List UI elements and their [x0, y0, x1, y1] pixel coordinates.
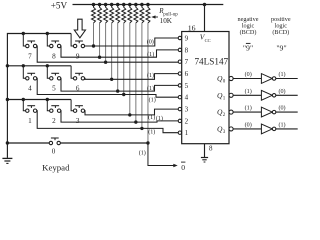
resistor R6 10K pull-up — [122, 3, 126, 23]
wire pin 8 to ground — [204, 144, 206, 158]
svg-text:8: 8 — [52, 52, 56, 60]
wire row bus 4-5-6 — [7, 65, 71, 67]
label inverted value (0) — [278, 88, 285, 95]
pin Q0 output bubble — [229, 76, 233, 80]
label pin 8 — [209, 145, 213, 153]
svg-text:4: 4 — [28, 85, 32, 93]
svg-text:2: 2 — [52, 117, 56, 125]
label Keypad — [42, 163, 70, 173]
inverter gate row 1 — [261, 90, 275, 100]
wire column from R6 down — [122, 23, 125, 96]
label net 0-bar — [181, 162, 185, 172]
pushbutton key 7 — [26, 41, 37, 60]
resistor R1 10K pull-up — [92, 3, 96, 23]
svg-text:(0): (0) — [278, 88, 285, 95]
wire column from R3 down — [104, 23, 107, 64]
svg-text:74LS147: 74LS147 — [194, 56, 228, 66]
svg-text:3: 3 — [185, 106, 189, 114]
label value 9-bar negative — [243, 43, 253, 52]
svg-text:CC: CC — [205, 38, 211, 43]
wire key 8 to pin 8 — [61, 46, 178, 57]
label pin number 1 — [185, 129, 189, 137]
svg-text:(1): (1) — [278, 122, 285, 129]
wire inverter row 0 output — [276, 78, 298, 80]
label input pin 2 state (1) — [148, 114, 155, 121]
pin 1 input bubble — [178, 131, 181, 134]
wire key 4 to pin 4 — [37, 78, 178, 97]
svg-text:8: 8 — [185, 46, 189, 54]
wire bus corner to key 9 — [71, 34, 73, 47]
svg-text:(1): (1) — [148, 114, 155, 121]
wire stub to key 2 — [46, 98, 50, 111]
inverter gate row 3 — [261, 124, 275, 134]
pushbutton key 2 — [50, 106, 61, 125]
svg-text:1: 1 — [185, 129, 189, 137]
wire Q3 to inverter — [233, 128, 262, 130]
svg-text:(1): (1) — [139, 150, 146, 157]
resistor R3 10K pull-up — [104, 3, 108, 23]
label Q2 value (1) — [245, 105, 252, 112]
svg-text:(1): (1) — [278, 71, 285, 78]
wire row bus 1-2-3 — [7, 99, 71, 101]
svg-text:(BCD): (BCD) — [240, 29, 257, 36]
label pin number 6 — [185, 70, 189, 78]
label value 9 positive — [276, 43, 286, 52]
svg-text:"9": "9" — [276, 43, 286, 52]
wire column from R9 down — [140, 23, 143, 130]
svg-text:2: 2 — [185, 117, 189, 125]
label inverted value (1) — [278, 122, 285, 129]
label pin number 9 — [185, 34, 189, 42]
wire bus corner to key 3 — [71, 100, 73, 111]
wire inverter row 3 output — [276, 128, 298, 130]
node +5V supply — [51, 1, 68, 11]
label pin number 7 — [185, 58, 189, 66]
label input pin 4 state (1) — [149, 96, 156, 103]
svg-text:(1): (1) — [149, 96, 156, 103]
label R pull-up = 10K with arrow — [151, 7, 178, 25]
svg-text:3: 3 — [76, 117, 80, 125]
svg-text:(BCD): (BCD) — [272, 29, 289, 36]
label input pin 9 state (0) — [147, 38, 154, 45]
wire bus corner to key 6 — [71, 66, 73, 79]
pushbutton key 5 — [50, 73, 61, 92]
label Q2 — [217, 108, 226, 119]
label pin number 8 — [185, 46, 189, 54]
junction bus to row 0 — [6, 141, 9, 144]
pin 3 input bubble — [178, 107, 181, 110]
svg-text:(1): (1) — [147, 72, 154, 79]
wire column from R2 down — [98, 23, 101, 59]
wire Q2 to inverter — [233, 111, 262, 113]
label Q0 — [217, 74, 226, 85]
svg-text:7: 7 — [185, 58, 189, 66]
wire inverter row 1 output — [276, 94, 298, 96]
wire column from R8 down — [134, 23, 137, 124]
svg-text:(0): (0) — [278, 105, 285, 112]
pin Q2 output bubble — [229, 110, 233, 114]
svg-text:5: 5 — [52, 85, 56, 93]
resistor R5 10K pull-up — [116, 3, 120, 23]
pushbutton key 0 — [49, 138, 60, 156]
label Q1 — [217, 91, 226, 102]
pushbutton key 9 — [73, 41, 84, 60]
wire stub to key 4 — [22, 64, 26, 78]
pin 7 input bubble — [178, 60, 181, 63]
svg-text:6: 6 — [185, 70, 189, 78]
svg-text:(1): (1) — [245, 105, 252, 112]
svg-text:0: 0 — [52, 148, 56, 156]
wire key 5 to pin 5 — [61, 78, 178, 91]
pin 2 input bubble — [178, 119, 181, 122]
label pin number 3 — [185, 106, 189, 114]
pin 9 input bubble — [178, 36, 181, 39]
wire Q0 to inverter — [233, 78, 262, 80]
junction bus to row 1-2-3 — [6, 98, 9, 101]
svg-text:(1): (1) — [156, 115, 163, 122]
label input pin 8 state (1) — [147, 51, 154, 58]
wire stub to key 5 — [46, 64, 50, 78]
label pin number 2 — [185, 117, 189, 125]
label inverted value (0) — [278, 105, 285, 112]
resistor R10 10K pull-up — [146, 3, 150, 23]
wire Q1 to inverter — [233, 94, 262, 96]
wire column from R10 down — [146, 23, 149, 145]
wire column from R5 down — [116, 23, 119, 93]
label pin 16 — [188, 23, 196, 32]
label input pin 1 state (1) — [148, 128, 155, 135]
wire column from R7 down — [128, 23, 131, 117]
label pin number 5 — [185, 82, 189, 90]
pushbutton key 8 — [50, 41, 61, 60]
svg-text:(1): (1) — [147, 85, 154, 92]
wire +5V rail — [73, 4, 224, 6]
wire key 3 to pin 3 — [85, 109, 179, 115]
label negative logic (BCD) — [238, 16, 259, 36]
svg-text:8: 8 — [209, 145, 213, 153]
label Q3 value (0) — [245, 122, 252, 129]
wire column from R4 down — [110, 23, 113, 81]
label positive logic (BCD) — [271, 16, 291, 36]
svg-text:16: 16 — [188, 23, 196, 32]
label Q3 — [217, 124, 226, 135]
pushbutton key 6 — [73, 73, 84, 92]
junction bus to row 4-5-6 — [6, 64, 9, 67]
pin 8 input bubble — [178, 48, 181, 51]
resistor R2 10K pull-up — [98, 3, 102, 23]
pin 5 input bubble — [178, 84, 181, 87]
pushbutton key 4 — [26, 73, 37, 92]
inverter gate row 2 — [261, 107, 275, 117]
label input pin 5 state (1) — [147, 85, 154, 92]
label Q1 value (1) — [245, 88, 252, 95]
svg-text:0: 0 — [181, 163, 185, 172]
pin Q1 output bubble — [229, 93, 233, 97]
label input pin 6 state (1) — [147, 72, 154, 79]
wire column from R1 down — [92, 23, 95, 48]
inverter gate row 0 — [261, 74, 275, 84]
wire key 1 to pin 1 — [37, 111, 178, 133]
wire key 9 to pin 9 — [85, 38, 179, 46]
wire inverter row 2 output — [276, 111, 298, 113]
label input pin 3 state (1) — [156, 115, 163, 122]
svg-text:(1): (1) — [245, 88, 252, 95]
svg-text:9: 9 — [76, 52, 80, 60]
wire stub to key 1 — [22, 98, 26, 111]
IC U1 74LS147 body — [182, 32, 229, 144]
svg-text:"9": "9" — [243, 43, 253, 52]
svg-text:5: 5 — [185, 82, 189, 90]
label row0 state (1) — [139, 150, 146, 157]
label Q0 value (0) — [245, 71, 252, 78]
svg-text:Keypad: Keypad — [42, 163, 70, 173]
label pin number 4 — [185, 94, 189, 102]
wire stub to key 8 — [46, 32, 50, 46]
wire row 0 — [7, 142, 148, 144]
svg-text:1: 1 — [28, 117, 32, 125]
resistor R4 10K pull-up — [110, 3, 114, 23]
svg-text:+5V: +5V — [51, 1, 68, 11]
pin 4 input bubble — [178, 96, 181, 99]
svg-text:(0): (0) — [245, 122, 252, 129]
svg-text:(0): (0) — [147, 38, 154, 45]
svg-text:(1): (1) — [148, 128, 155, 135]
pushbutton key 3 — [73, 106, 84, 125]
pin Q3 output bubble — [229, 127, 233, 131]
svg-text:4: 4 — [185, 94, 189, 102]
label inverted value (1) — [278, 71, 285, 78]
wire 0-line to indicator arrow — [148, 143, 178, 167]
wire Vcc rail to pin 16 — [203, 3, 207, 32]
arrow key-9 press indicator — [74, 19, 85, 38]
wire key 6 to pin 6 — [85, 74, 179, 80]
resistor R9 10K pull-up — [140, 3, 144, 23]
resistor R8 10K pull-up — [134, 3, 138, 23]
svg-text:10K: 10K — [160, 17, 173, 25]
ground IC — [201, 158, 208, 163]
resistor R7 10K pull-up — [128, 3, 132, 23]
pin 6 input bubble — [178, 72, 181, 75]
pushbutton key 1 — [26, 106, 37, 125]
wire keypad common bus — [7, 34, 71, 158]
ground keypad bus — [2, 158, 12, 163]
wire key 7 to pin 7 — [37, 46, 178, 62]
svg-text:(1): (1) — [147, 51, 154, 58]
svg-text:(0): (0) — [245, 71, 252, 78]
svg-text:7: 7 — [28, 52, 32, 60]
wire key 2 to pin 2 — [61, 111, 178, 122]
svg-text:9: 9 — [185, 34, 189, 42]
wire stub to key 7 — [22, 32, 26, 46]
